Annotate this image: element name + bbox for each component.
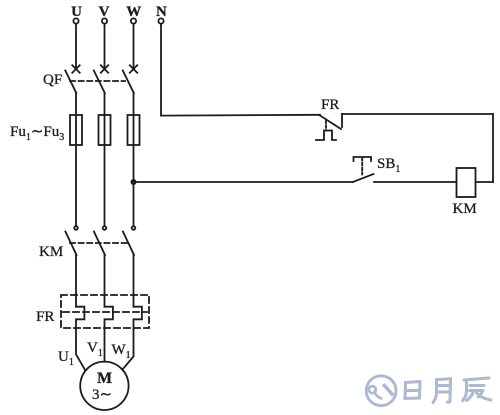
svg-text:KM: KM <box>39 244 63 260</box>
contactor KM pole 1 terminal <box>74 226 78 230</box>
breaker QF pole 1 blade <box>65 71 76 94</box>
node junction on W phase <box>131 179 137 185</box>
wire QF to KM phase 1 <box>75 93 77 226</box>
wire right rail down <box>492 114 494 182</box>
breaker QF linkage dashed <box>70 80 125 82</box>
contactor KM pole 3 terminal <box>132 226 136 230</box>
watermark char chen <box>463 378 492 401</box>
motor lead V1 <box>104 329 106 362</box>
watermark char ri <box>405 378 491 403</box>
svg-text:FR: FR <box>36 309 54 325</box>
wire control line to SB1 <box>134 181 354 183</box>
contactor KM pole 3 blade <box>123 232 134 256</box>
terminal U <box>73 18 78 23</box>
contactor KM pole 2 terminal <box>103 226 107 230</box>
motor lead U1 <box>76 329 85 371</box>
SB1 button head <box>354 157 372 161</box>
svg-text:FR: FR <box>321 97 339 113</box>
motor M circle <box>80 362 128 410</box>
wire KM to heater phase 2 <box>104 255 106 307</box>
FR heater element 3 <box>134 307 142 329</box>
wire SB1 to KM coil <box>374 181 457 183</box>
SB1 actuator dashed <box>361 158 363 175</box>
FR contact thermal symbol <box>316 131 336 141</box>
FR heater linkage dashed <box>63 311 147 313</box>
watermark logo hand <box>383 384 393 395</box>
FR contact blade <box>320 116 341 130</box>
wire N down <box>160 24 162 115</box>
FR contact stub <box>341 114 343 127</box>
contactor KM pole 1 blade <box>65 232 76 256</box>
terminal W <box>131 18 136 23</box>
coil KM <box>457 168 476 197</box>
watermark char yue <box>433 379 451 403</box>
FR contact actuator dashed <box>325 121 327 131</box>
watermark logo ring <box>366 376 396 406</box>
fuse FU2 <box>99 115 111 145</box>
watermark logo small circle <box>369 386 376 393</box>
fuse FU1 <box>70 115 82 145</box>
SB1 blade <box>353 174 374 182</box>
breaker QF pole 2 X <box>101 65 108 72</box>
contactor KM pole 2 blade <box>94 232 105 256</box>
contactor KM linkage dashed <box>70 242 129 244</box>
terminal V <box>102 18 107 23</box>
wire N horizontal to FR contact <box>161 114 320 117</box>
svg-text:KM: KM <box>453 201 477 217</box>
FR heater element 1 <box>76 307 84 329</box>
motor lead W1 <box>122 329 133 370</box>
wire V to QF <box>104 24 106 69</box>
svg-text:QF: QF <box>43 72 62 88</box>
FR heater box dashed <box>61 295 149 328</box>
wire KM to heater phase 3 <box>133 255 135 307</box>
wire KM to heater phase 1 <box>75 255 77 307</box>
fuse FU3 <box>128 115 140 145</box>
svg-text:M: M <box>97 370 112 387</box>
wire QF to KM phase 2 <box>104 93 106 226</box>
wire FR contact to right rail <box>342 113 493 115</box>
wire KM coil to right rail <box>476 181 494 183</box>
breaker QF pole 3 blade <box>123 71 134 94</box>
breaker QF pole 3 X <box>130 65 137 72</box>
breaker QF pole 1 X <box>72 65 79 72</box>
breaker QF pole 2 blade <box>94 71 105 94</box>
watermark logo tail <box>375 393 383 399</box>
FR heater element 2 <box>105 307 113 329</box>
wire QF to KM phase 3 <box>133 93 135 226</box>
wire U to QF <box>75 24 77 69</box>
wire W to QF <box>133 24 135 69</box>
svg-text:3∼: 3∼ <box>92 387 112 403</box>
terminal N <box>158 18 163 23</box>
